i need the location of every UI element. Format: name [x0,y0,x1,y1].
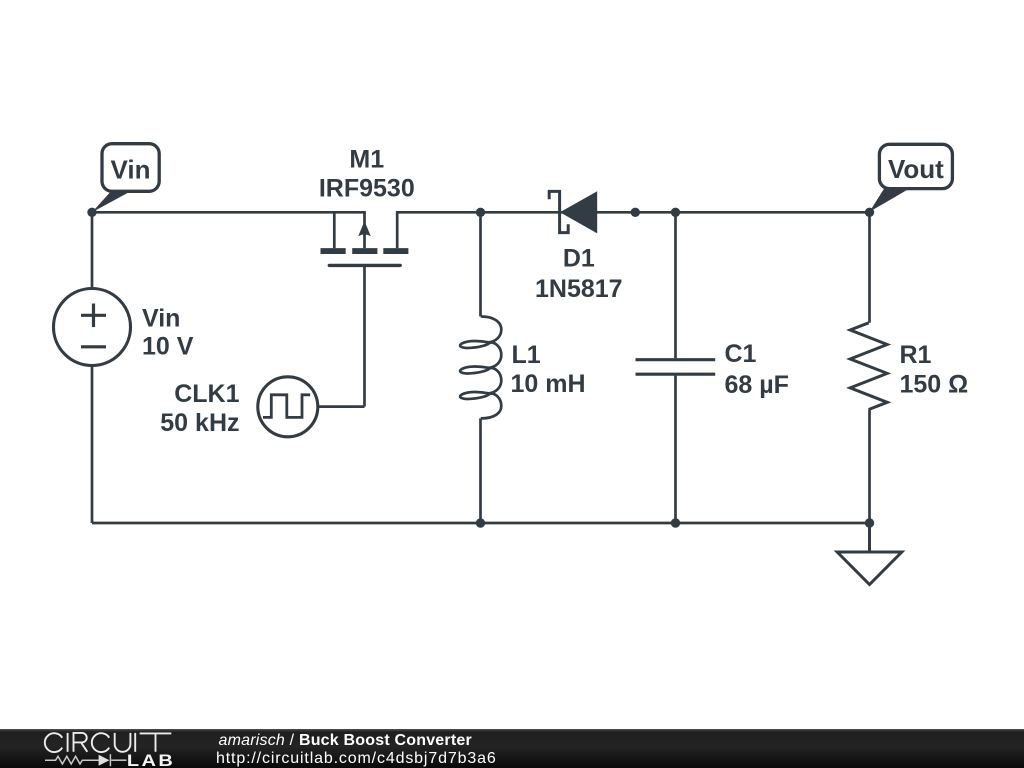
wire: V1 bottom to bottom rail [91,366,94,524]
logo letter T [140,733,172,751]
ground symbol [837,523,902,585]
logo letter I [134,732,136,751]
flag Vin [92,144,159,213]
logo resistor squiggle and wire [45,756,99,764]
svg-text:Vin: Vin [111,155,151,185]
svg-text:LAB: LAB [127,750,175,768]
CircuitLab logo [0,729,200,768]
label CLK1 / 50 kHz [160,380,239,437]
logo diode cathode bar [109,754,111,766]
footer bar [0,729,1024,768]
svg-text:Vout: Vout [888,154,944,184]
M1 body arrow [358,221,371,236]
svg-text:CLK1: CLK1 [174,380,239,408]
svg-text:10 mH: 10 mH [511,370,586,398]
inductor L1 coil [460,316,501,418]
svg-text:L1: L1 [512,341,541,369]
label M1 / IRF9530 [319,146,415,203]
logo letter U [115,732,131,751]
logo letter I [67,732,69,751]
wire: top rail left (Vin node to M1 source/body) [92,211,366,214]
svg-text:1N5817: 1N5817 [535,275,623,303]
logo letter C [92,733,109,752]
diode D1 (schottky 1N5817) [549,191,568,232]
capacitor C1 plates [636,360,716,375]
svg-text:IRF9530: IRF9530 [319,175,415,203]
svg-text:68 µF: 68 µF [725,371,789,399]
footer title line 1 [219,733,472,749]
logo letter R [74,732,88,751]
wire: L1 top lead from top rail [479,212,482,316]
footer url line 2 [216,751,497,767]
label R1 / 150 ohm [900,341,969,399]
label C1 / 68 uF [725,340,789,399]
wire: top rail right (M1 drain to Vout node) [396,211,870,214]
logo diode triangle [99,754,110,765]
D1 triangle [560,191,597,233]
wire: C1 bottom lead [674,376,677,523]
resistor R1 zigzag [850,323,887,410]
voltage source V1 (Vin 10 V) [54,289,131,366]
svg-text:Vin: Vin [142,305,180,333]
svg-text:10 V: 10 V [142,333,194,361]
node: Vout junction [865,208,874,217]
wire: bottom rail [92,522,870,525]
node: C1 bottom junction [671,518,680,527]
wire: R1 top lead [868,212,871,322]
label D1 / 1N5817 [535,244,623,303]
node: L1 bottom junction [476,518,485,527]
svg-text:M1: M1 [349,146,384,174]
node: L1 top junction [476,208,485,217]
node: D1 anode junction [631,208,640,217]
logo wire to LAB [111,759,126,761]
svg-text:R1: R1 [900,341,932,369]
svg-text:50 kHz: 50 kHz [160,409,239,437]
wire: C1 top lead [674,212,677,358]
svg-text:150 Ω: 150 Ω [900,371,969,399]
node: C1 top junction [671,208,680,217]
clock source CLK1 (50 kHz) [258,377,318,437]
wire: left vertical Vin node to V1 top [91,212,94,288]
wire: L1 bottom lead to bottom rail [479,418,482,523]
svg-text:D1: D1 [563,244,595,272]
flag Vout [870,144,953,212]
label L1 / 10 mH [511,341,586,398]
logo letter C [45,733,62,752]
svg-text:C1: C1 [725,340,757,368]
node: ground junction [865,518,874,527]
wire: R1 bottom lead [868,410,871,524]
value label Vin / 10 V [142,305,194,361]
mosfet M1 (PMOS IRF9530) [318,212,409,406]
node: Vin junction [87,208,96,217]
